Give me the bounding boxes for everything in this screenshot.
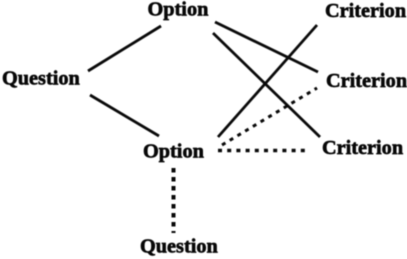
svg-text:Criterion: Criterion xyxy=(322,137,403,159)
wire Option(top)-Criterion(middle) solid xyxy=(215,22,318,72)
svg-text:Criterion: Criterion xyxy=(326,70,407,92)
svg-text:Question: Question xyxy=(140,236,218,258)
wire Option(bottom)-Criterion(top) solid xyxy=(218,25,317,137)
svg-text:Criterion: Criterion xyxy=(325,0,406,22)
wire Option(bottom)-Criterion(bottom) dotted xyxy=(218,149,309,153)
wire Option(bottom)-Question(bottom) dotted xyxy=(172,168,176,233)
svg-text:Question: Question xyxy=(2,68,80,90)
svg-text:Option: Option xyxy=(148,0,209,21)
wire Question(left)-Option(top) solid xyxy=(88,26,161,71)
wire Option(top)-Criterion(bottom) solid xyxy=(213,33,320,137)
wire Option(bottom)-Criterion(middle) dotted xyxy=(222,88,317,145)
svg-text:Option: Option xyxy=(143,141,204,163)
wire Question(left)-Option(bottom) solid xyxy=(90,95,159,136)
